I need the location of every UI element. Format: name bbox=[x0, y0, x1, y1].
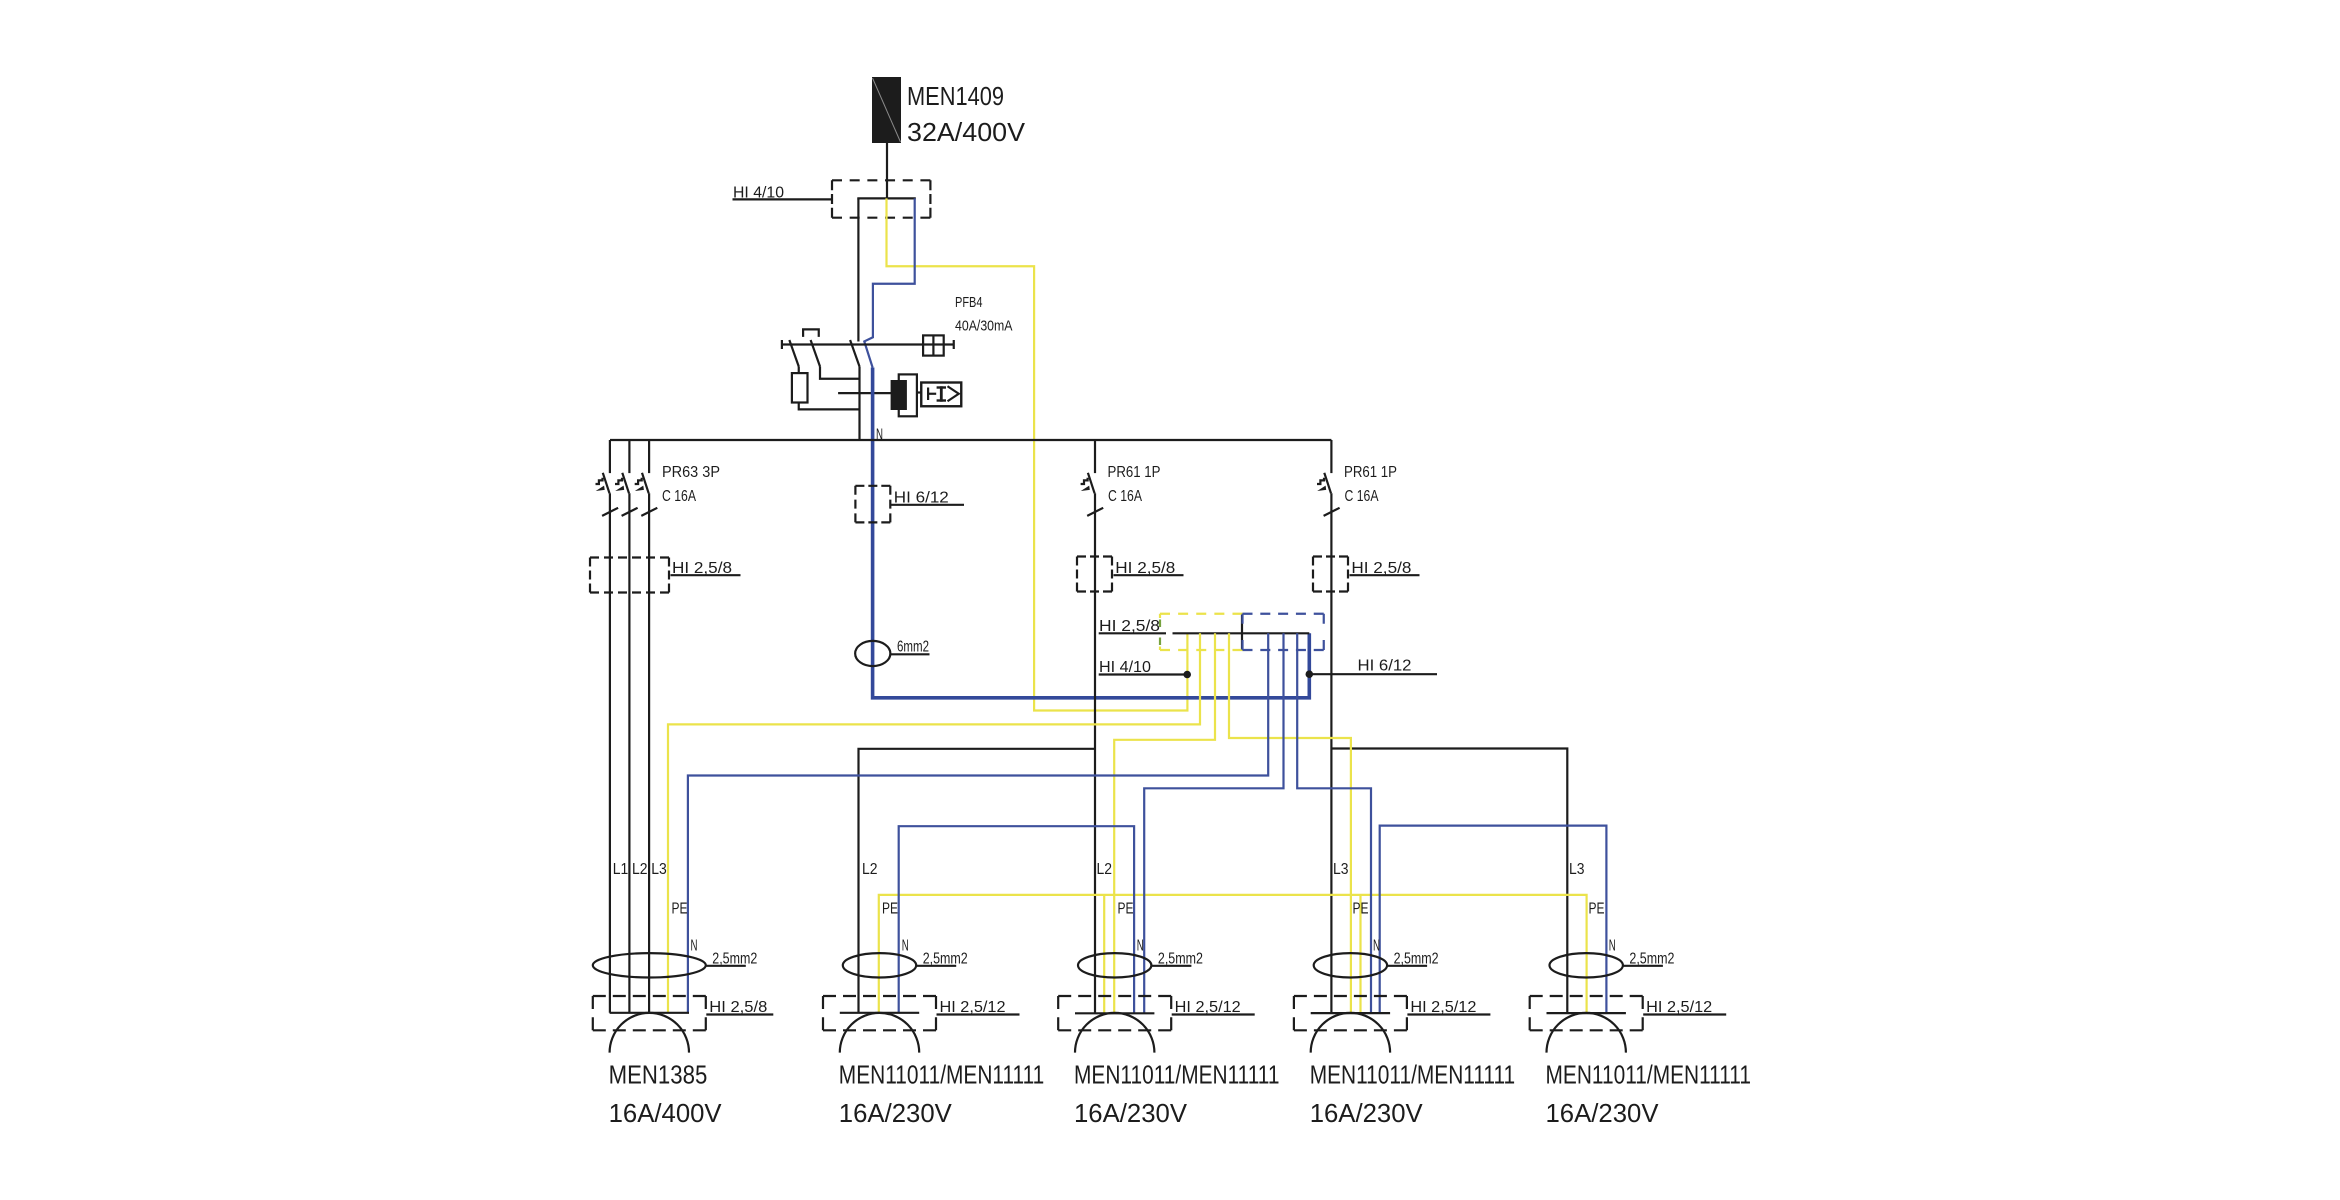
svg-text:N: N bbox=[691, 938, 698, 955]
svg-text:PE: PE bbox=[882, 901, 898, 918]
svg-text:PFB4: PFB4 bbox=[955, 294, 983, 311]
svg-text:N: N bbox=[902, 938, 909, 955]
svg-text:40A/30mA: 40A/30mA bbox=[955, 318, 1013, 335]
svg-text:PE: PE bbox=[1353, 901, 1369, 918]
svg-text:N: N bbox=[1373, 938, 1380, 955]
svg-text:L3: L3 bbox=[1333, 861, 1349, 878]
svg-text:PE: PE bbox=[1589, 901, 1605, 918]
svg-text:N: N bbox=[1137, 938, 1144, 955]
svg-text:N: N bbox=[1609, 938, 1616, 955]
svg-text:MEN11011/MEN11111: MEN11011/MEN11111 bbox=[1310, 1059, 1516, 1089]
svg-text:32A/400V: 32A/400V bbox=[907, 117, 1026, 147]
svg-text:C 16A: C 16A bbox=[1108, 488, 1142, 505]
svg-text:16A/230V: 16A/230V bbox=[1074, 1098, 1188, 1128]
svg-text:16A/230V: 16A/230V bbox=[1546, 1098, 1660, 1128]
svg-text:L3: L3 bbox=[651, 861, 667, 878]
svg-text:16A/230V: 16A/230V bbox=[1310, 1098, 1424, 1128]
svg-text:MEN11011/MEN11111: MEN11011/MEN11111 bbox=[839, 1059, 1045, 1089]
svg-text:MEN11011/MEN11111: MEN11011/MEN11111 bbox=[1074, 1059, 1280, 1089]
svg-text:HI 6/12: HI 6/12 bbox=[1358, 658, 1412, 675]
svg-text:MEN11011/MEN11111: MEN11011/MEN11111 bbox=[1546, 1059, 1752, 1089]
svg-text:L1: L1 bbox=[613, 861, 629, 878]
svg-text:PR63 3P: PR63 3P bbox=[662, 464, 720, 481]
svg-text:L2: L2 bbox=[632, 861, 648, 878]
svg-text:PR61 1P: PR61 1P bbox=[1108, 464, 1161, 481]
svg-text:L2: L2 bbox=[1097, 861, 1113, 878]
svg-text:6mm2: 6mm2 bbox=[897, 639, 929, 656]
svg-text:C 16A: C 16A bbox=[1345, 488, 1379, 505]
svg-text:PE: PE bbox=[672, 901, 688, 918]
svg-text:MEN1385: MEN1385 bbox=[609, 1059, 708, 1089]
svg-text:PE: PE bbox=[1118, 901, 1134, 918]
svg-text:MEN1409: MEN1409 bbox=[907, 81, 1004, 111]
svg-text:16A/400V: 16A/400V bbox=[609, 1098, 723, 1128]
svg-text:16A/230V: 16A/230V bbox=[839, 1098, 953, 1128]
svg-text:PR61 1P: PR61 1P bbox=[1344, 464, 1397, 481]
svg-text:C 16A: C 16A bbox=[662, 488, 696, 505]
svg-text:L3: L3 bbox=[1569, 861, 1585, 878]
svg-text:L2: L2 bbox=[862, 861, 878, 878]
